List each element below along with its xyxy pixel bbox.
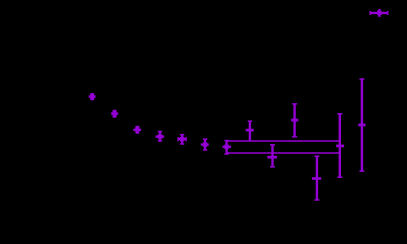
- data point P5 with error bars: [178, 134, 186, 144]
- data point P1 with error bars: [89, 93, 96, 100]
- data point P2 with error bars: [111, 110, 118, 118]
- data point P4 with error bars: [155, 131, 164, 141]
- wide horizontal error line B: [227, 152, 340, 154]
- data point P12 with error bars (end of wide bin lines): [336, 114, 344, 178]
- data point P6 with error bars: [201, 139, 209, 150]
- data point P14 top-right with error bars: [370, 9, 388, 17]
- data point P13 with tall error bar: [358, 79, 365, 172]
- data point P11 with error bars: [312, 156, 321, 200]
- data point P7 with error bars (start of wide bin lines): [223, 140, 232, 154]
- wide horizontal error line A: [227, 140, 340, 142]
- data point P8 with error bars: [246, 121, 254, 141]
- data point P3 with error bars: [133, 126, 141, 134]
- data point P9 with error bars: [267, 145, 277, 167]
- data point P10 with error bars: [291, 104, 298, 137]
